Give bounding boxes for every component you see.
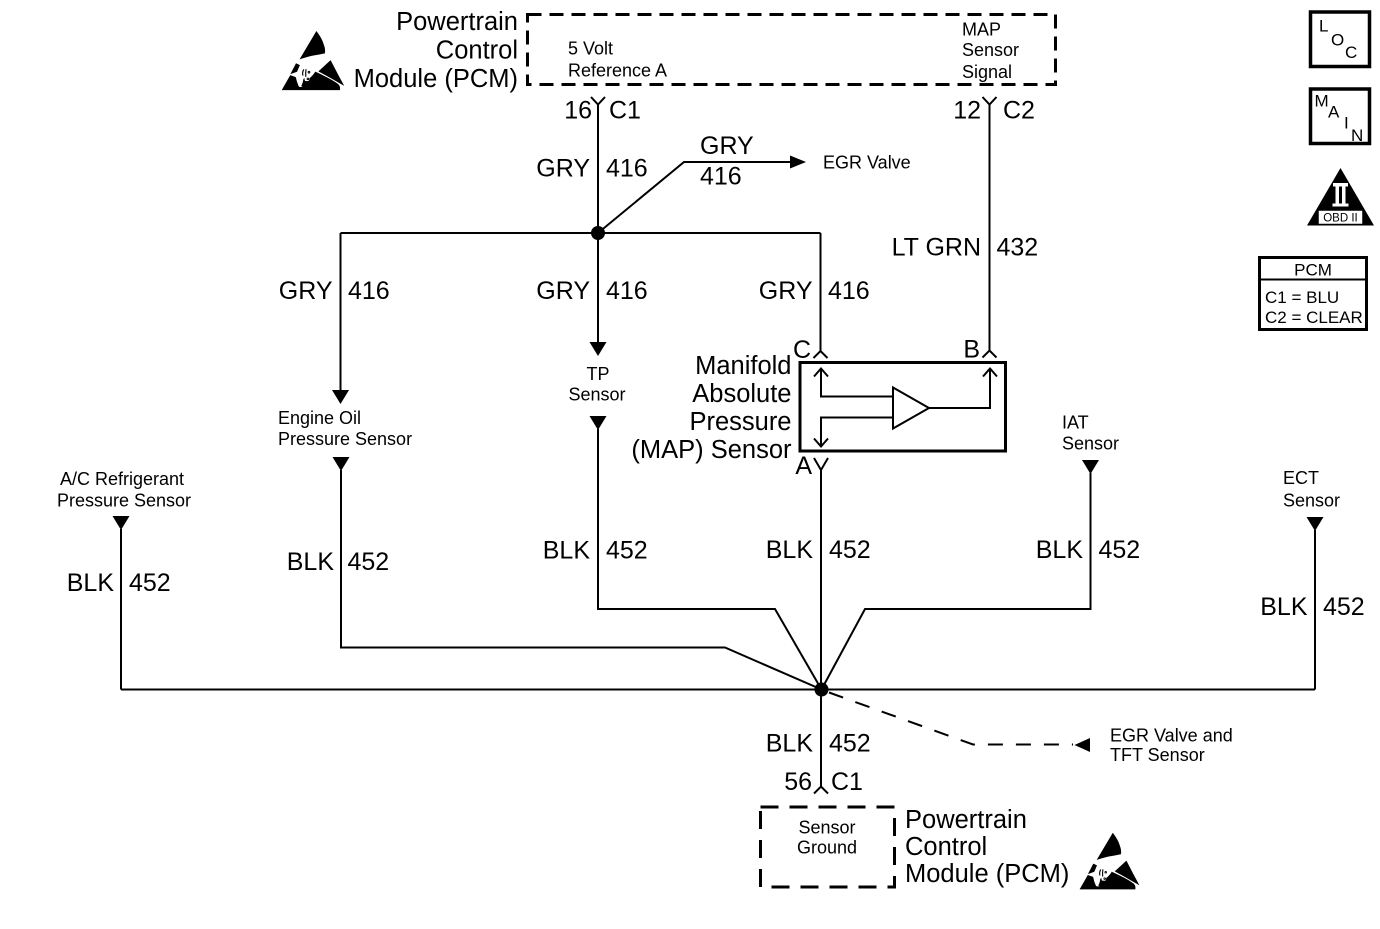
- label: Engine Oil Pressure Sensor: [278, 408, 412, 449]
- svg-text:Signal: Signal: [962, 62, 1012, 82]
- svg-text:MAP: MAP: [962, 20, 1001, 40]
- svg-text:16: 16: [564, 97, 592, 125]
- svg-text:C2: C2: [1003, 97, 1035, 125]
- svg-text:Pressure Sensor: Pressure Sensor: [57, 491, 191, 511]
- svg-text:GRY: GRY: [536, 277, 590, 305]
- svg-text:Sensor: Sensor: [962, 40, 1019, 60]
- svg-text:Sensor: Sensor: [568, 385, 625, 405]
- svg-text:Powertrain: Powertrain: [905, 806, 1027, 834]
- svg-text:A/C Refrigerant: A/C Refrigerant: [60, 469, 184, 489]
- svg-text:432: 432: [997, 234, 1039, 262]
- svg-text:BLK: BLK: [67, 569, 115, 597]
- label GRY 416 (pin 16 wire): [536, 155, 647, 183]
- label BLK 452 (MAP A wire): [766, 536, 871, 564]
- svg-text:5 Volt: 5 Volt: [568, 39, 613, 59]
- label: EGR Valve and TFT Sensor: [1110, 726, 1233, 766]
- svg-text:Module (PCM): Module (PCM): [905, 860, 1069, 888]
- svg-text:ECT: ECT: [1283, 468, 1319, 488]
- MAP internal: amplifier triangle: [893, 388, 929, 429]
- svg-text:BLK: BLK: [766, 730, 814, 758]
- dashed wire to EGR Valve and TFT Sensor: [829, 693, 1073, 745]
- svg-text:452: 452: [829, 730, 871, 758]
- label: Sensor Ground: [797, 818, 857, 858]
- svg-text:452: 452: [1323, 593, 1365, 621]
- svg-text:BLK: BLK: [287, 548, 335, 576]
- label: 5 Volt Reference A: [568, 39, 667, 81]
- arrow from EGR Valve and TFT Sensor: [1075, 738, 1091, 752]
- wire EGR branch (diagonal + horizontal): [598, 162, 790, 233]
- ESD warning symbol (bottom right): [1080, 833, 1140, 890]
- svg-text:LT GRN: LT GRN: [892, 234, 981, 262]
- svg-text:PCM: PCM: [1294, 261, 1332, 280]
- PCM dashed box (top): [528, 15, 1056, 85]
- label GRY 416 (right drop): [759, 277, 870, 305]
- svg-text:C: C: [1345, 43, 1357, 62]
- svg-text:Ground: Ground: [797, 838, 857, 858]
- connector pin 16 C1: [564, 97, 641, 125]
- svg-text:BLK: BLK: [1260, 593, 1308, 621]
- svg-text:Sensor: Sensor: [1283, 491, 1340, 511]
- MAP internal: pin C lead with up arrow: [814, 369, 893, 397]
- arrow from Engine Oil Pressure Sensor: [333, 457, 350, 471]
- wire BLK 452 from ECT sensor: [1314, 530, 1316, 690]
- arrow from A/C Refrigerant Pressure Sensor: [113, 516, 130, 530]
- svg-text:TFT Sensor: TFT Sensor: [1110, 745, 1205, 765]
- arrow from ECT Sensor: [1307, 517, 1324, 531]
- svg-text:GRY: GRY: [536, 155, 590, 183]
- svg-text:Control: Control: [436, 37, 518, 65]
- svg-text:Manifold: Manifold: [695, 352, 791, 380]
- svg-text:O: O: [1331, 31, 1344, 50]
- svg-text:452: 452: [829, 536, 871, 564]
- wire BLK 452 from IAT sensor to splice: [822, 473, 1091, 690]
- svg-text:N: N: [1351, 126, 1363, 145]
- ground splice junction: [815, 683, 829, 697]
- svg-text:Pressure Sensor: Pressure Sensor: [278, 429, 412, 449]
- label BLK 452 (ground wire): [766, 730, 871, 758]
- arrow to EGR Valve: [790, 156, 806, 169]
- svg-text:416: 416: [700, 163, 742, 191]
- svg-text:GRY: GRY: [759, 277, 813, 305]
- svg-text:EGR Valve and: EGR Valve and: [1110, 726, 1233, 746]
- label: ECT Sensor: [1283, 468, 1340, 511]
- wire BLK 452 from TP sensor to splice: [598, 429, 822, 690]
- svg-text:TP: TP: [586, 364, 609, 384]
- label GRY 416 (EGR branch): [700, 132, 754, 191]
- svg-text:416: 416: [828, 277, 870, 305]
- svg-text:Engine Oil: Engine Oil: [278, 408, 361, 428]
- ESD warning symbol (top left): [282, 31, 344, 90]
- label: A/C Refrigerant Pressure Sensor: [57, 469, 191, 511]
- label LT GRN 432: [892, 234, 1039, 262]
- svg-text:M: M: [1315, 92, 1329, 111]
- label GRY 416 (middle drop): [536, 277, 647, 305]
- label BLK 452 (Engine Oil wire): [287, 548, 389, 576]
- svg-text:IAT: IAT: [1062, 413, 1089, 433]
- svg-text:C1 = BLU: C1 = BLU: [1265, 288, 1339, 307]
- svg-text:I: I: [1344, 114, 1349, 133]
- svg-text:EGR Valve: EGR Valve: [823, 153, 911, 173]
- label: MAP Sensor Signal: [962, 20, 1019, 83]
- pin A connector fork: [795, 452, 828, 480]
- svg-text:452: 452: [1099, 536, 1141, 564]
- svg-text:Sensor: Sensor: [1062, 434, 1119, 454]
- svg-text:Absolute: Absolute: [692, 380, 791, 408]
- label BLK 452 (IAT wire): [1036, 536, 1140, 564]
- MAP internal: pin A lead with down arrow: [814, 418, 893, 447]
- svg-text:12: 12: [953, 97, 981, 125]
- pin B connector fork: [963, 336, 996, 364]
- MAP internal: output lead to pin B with up arrow: [929, 369, 997, 409]
- MAIN legend box: [1311, 89, 1370, 145]
- wire BLK 452 from A/C sensor: [120, 529, 122, 690]
- OBD II symbol: [1307, 168, 1374, 226]
- svg-text:Pressure: Pressure: [689, 408, 791, 436]
- svg-text:GRY: GRY: [279, 277, 333, 305]
- svg-text:C1: C1: [609, 97, 641, 125]
- label: TP Sensor: [568, 364, 625, 405]
- PCM connector legend box: [1258, 258, 1368, 330]
- arrow into TP Sensor: [590, 342, 607, 356]
- svg-text:A: A: [1328, 103, 1340, 122]
- svg-text:Reference A: Reference A: [568, 61, 667, 81]
- label: Powertrain Control Module (PCM), top left: [354, 8, 518, 93]
- svg-text:416: 416: [606, 277, 648, 305]
- wire GRY 416 left drop to Engine Oil Pressure Sensor: [340, 233, 342, 391]
- svg-text:56: 56: [784, 768, 812, 796]
- svg-text:Sensor: Sensor: [798, 818, 855, 838]
- MAP sensor box: [800, 363, 1006, 452]
- label BLK 452 (TP wire): [543, 537, 648, 565]
- wire bus GRY horizontal: [341, 232, 821, 234]
- svg-text:OBD II: OBD II: [1323, 213, 1358, 225]
- connector pin 12 C2: [953, 97, 1035, 125]
- svg-text:416: 416: [348, 277, 390, 305]
- svg-text:452: 452: [129, 569, 171, 597]
- wire BLK 452 from MAP pin A down to ground splice: [820, 470, 822, 787]
- wire GRY 416 right drop to MAP sensor pin C: [820, 233, 822, 351]
- svg-text:BLK: BLK: [766, 536, 814, 564]
- label GRY 416 (left drop): [279, 277, 390, 305]
- svg-text:GRY: GRY: [700, 132, 754, 160]
- svg-text:452: 452: [606, 537, 648, 565]
- svg-text:452: 452: [348, 548, 390, 576]
- junction splice (GRY bus): [591, 226, 605, 240]
- svg-text:C: C: [793, 336, 811, 364]
- svg-text:B: B: [963, 336, 980, 364]
- Sensor Ground dashed box: [761, 807, 895, 887]
- svg-text:A: A: [795, 452, 812, 480]
- label: IAT Sensor: [1062, 413, 1119, 454]
- wire GRY 416 from pin 16 down to TP sensor arrow: [597, 105, 599, 343]
- label: Powertrain Control Module (PCM), bottom: [905, 806, 1069, 888]
- arrow from TP Sensor (return): [590, 416, 607, 430]
- svg-text:416: 416: [606, 155, 648, 183]
- svg-text:C2 = CLEAR: C2 = CLEAR: [1265, 308, 1363, 327]
- pin C connector fork: [793, 336, 828, 364]
- label: Manifold Absolute Pressure (MAP) Sensor: [631, 352, 792, 464]
- wire LT GRN 432 from pin 12 to MAP sensor pin B: [989, 105, 991, 351]
- svg-text:L: L: [1319, 17, 1328, 36]
- arrow into Engine Oil Pressure Sensor: [332, 390, 349, 404]
- arrow from IAT Sensor: [1082, 460, 1099, 474]
- wire BLK 452 horizontal ground bus: [121, 689, 1315, 691]
- svg-text:BLK: BLK: [543, 537, 591, 565]
- svg-text:Control: Control: [905, 833, 987, 861]
- label BLK 452 (ECT wire): [1260, 593, 1364, 621]
- wire BLK 452 from Engine Oil sensor to splice: [341, 470, 822, 690]
- LOC legend box: [1311, 12, 1370, 67]
- svg-text:(MAP) Sensor: (MAP) Sensor: [631, 436, 792, 464]
- svg-text:Powertrain: Powertrain: [396, 8, 518, 36]
- connector pin 56 C1: [784, 768, 863, 796]
- svg-text:BLK: BLK: [1036, 536, 1084, 564]
- svg-text:Module (PCM): Module (PCM): [354, 65, 518, 93]
- svg-text:C1: C1: [831, 768, 863, 796]
- label BLK 452 (A/C wire): [67, 569, 171, 597]
